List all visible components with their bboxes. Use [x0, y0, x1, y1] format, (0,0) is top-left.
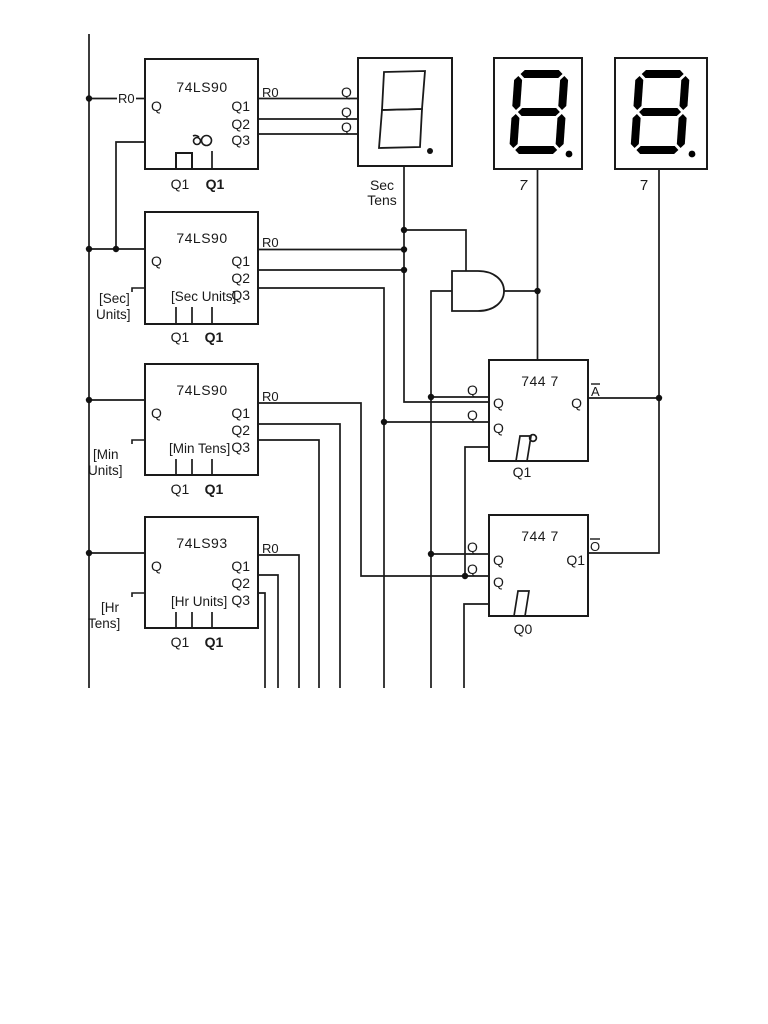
chip U4 labels	[96, 230, 279, 345]
symbol U3 bottom notch	[176, 153, 192, 169]
junction dot bus-chip4	[86, 550, 92, 556]
svg-text:Q: Q	[151, 98, 162, 114]
svg-text:7: 7	[640, 177, 648, 194]
svg-text:Q: Q	[467, 539, 478, 555]
svg-text:Q1: Q1	[231, 253, 250, 269]
svg-text:Q1: Q1	[171, 481, 190, 497]
wire branch to AND gate top input	[404, 230, 466, 271]
decoder U1 labels	[467, 373, 582, 480]
svg-text:Q: Q	[467, 407, 478, 423]
wire chip3 left input	[89, 399, 145, 401]
svg-text:74LS90: 74LS90	[176, 79, 227, 95]
wire node to U2 upper input	[431, 553, 489, 555]
svg-text:R0: R0	[262, 389, 279, 404]
label U2 output O-bar	[590, 539, 600, 554]
wire chip2 R0 output	[258, 249, 404, 251]
wire chip1 R0 input right segment	[136, 98, 145, 100]
symbol U5 left tick	[132, 440, 145, 444]
svg-text:[Sec Units]: [Sec Units]	[171, 289, 236, 304]
svg-text:Q1: Q1	[171, 329, 190, 345]
wire chip2 Q3 output down to bottom	[258, 288, 384, 688]
display DS2 box	[494, 58, 582, 169]
display DS1 decimal point	[427, 148, 433, 154]
wire chip1 bottom-left to chip2 input	[116, 142, 145, 249]
wire U1 bottom-left pin down	[465, 447, 489, 576]
svg-text:Q1: Q1	[171, 634, 190, 650]
svg-text:Q0: Q0	[514, 621, 533, 637]
junction dot U2 lower input	[462, 573, 468, 579]
junction dot chip2 Q2	[401, 267, 407, 273]
svg-text:Q3: Q3	[231, 592, 250, 608]
junction dot bus-chip2	[86, 246, 92, 252]
svg-text:Units]: Units]	[88, 463, 123, 478]
svg-text:Q: Q	[341, 104, 352, 120]
wire chip4 left input	[89, 552, 145, 554]
symbol U4 left tick	[132, 288, 145, 292]
counter 74LS90 U3 box (Sec Tens)	[145, 59, 258, 169]
wire chip2 left input	[89, 248, 145, 250]
svg-text:Q1: Q1	[231, 558, 250, 574]
junction dot AND output	[534, 288, 540, 294]
decoder 7447 U2 box	[489, 515, 588, 616]
wire node to U1 lower input	[384, 421, 489, 423]
junction dot bus-chip3	[86, 397, 92, 403]
svg-text:74LS90: 74LS90	[176, 230, 227, 246]
wire chip1 R0 input left segment	[89, 98, 117, 100]
svg-text:Q2: Q2	[231, 575, 250, 591]
symbol U1 bottom flag	[516, 435, 536, 461]
svg-text:Q3: Q3	[231, 439, 250, 455]
decoder U2 labels	[467, 528, 585, 637]
svg-text:R0: R0	[262, 235, 279, 250]
display DS1 box (Sec Tens)	[358, 58, 452, 166]
svg-text:Q: Q	[493, 574, 504, 590]
svg-text:Q: Q	[467, 382, 478, 398]
symbol U6 bottom ticks	[176, 612, 212, 628]
display DS2 decimal point	[566, 151, 573, 158]
display DS1 outline eight	[379, 71, 425, 148]
svg-text:Q: Q	[151, 405, 162, 421]
svg-text:Q1: Q1	[231, 98, 250, 114]
svg-text:[Sec]: [Sec]	[99, 291, 130, 306]
chip U5 labels	[88, 382, 279, 497]
chip U3 labels	[118, 79, 279, 192]
junction dot U1 output	[656, 395, 662, 401]
junction dot bus-chip1	[86, 95, 92, 101]
svg-text:[Hr: [Hr	[101, 600, 120, 615]
svg-text:Q: Q	[571, 395, 582, 411]
wire display3 down to U2 output	[588, 169, 659, 553]
svg-text:R0: R0	[118, 91, 135, 106]
wire node to U1 upper input	[431, 396, 489, 398]
svg-text:Q1: Q1	[206, 176, 225, 192]
wire chip4 Q2 output down	[258, 575, 278, 688]
wire main left bus	[88, 34, 90, 688]
svg-text:744 7: 744 7	[521, 528, 559, 544]
display DS3 digit 8	[630, 70, 690, 154]
junction dot U1 lower input	[381, 419, 387, 425]
wire chip1 Q2 to display1	[258, 118, 358, 120]
wire U1 output A	[588, 397, 659, 399]
svg-text:Q: Q	[493, 420, 504, 436]
junction dot chip1-drop on chip2 wire	[113, 246, 119, 252]
svg-text:Q: Q	[467, 561, 478, 577]
svg-text:Tens]: Tens]	[88, 616, 120, 631]
svg-text:Sec: Sec	[370, 177, 394, 193]
junction dot U2 upper input	[428, 551, 434, 557]
svg-text:Q1: Q1	[566, 552, 585, 568]
svg-text:Q1: Q1	[205, 329, 224, 345]
svg-text:Tens: Tens	[367, 192, 397, 208]
svg-text:Q1: Q1	[513, 464, 532, 480]
wire chip4 R0 output down	[258, 555, 299, 688]
wire chip3 R0 to U2 lower input	[258, 403, 489, 576]
svg-text:Q: Q	[151, 253, 162, 269]
counter 74LS90 U4 box (Sec Units)	[145, 212, 258, 324]
wire chip1 Q3 to display1	[258, 133, 358, 135]
svg-text:[Min Tens]: [Min Tens]	[169, 441, 230, 456]
svg-text:[Min: [Min	[93, 447, 119, 462]
wire U2 bottom-left pin down	[464, 604, 489, 688]
svg-text:A: A	[591, 384, 600, 399]
svg-text:Q2: Q2	[231, 116, 250, 132]
counter 74LS93 U6 box (Hr)	[145, 517, 258, 628]
svg-text:O: O	[590, 539, 600, 554]
wire display2 down to U1 top	[537, 169, 539, 360]
svg-text:Q: Q	[493, 395, 504, 411]
wire chip4 Q3 output down	[258, 593, 265, 688]
svg-text:Q: Q	[493, 552, 504, 568]
svg-text:7: 7	[519, 177, 528, 194]
wire chip3 Q2 output down	[258, 424, 340, 688]
symbol U6 left tick	[132, 593, 145, 597]
chip U6 labels	[88, 535, 279, 650]
and gate G1	[452, 271, 504, 311]
svg-text:744 7: 744 7	[521, 373, 559, 389]
junction dot U1 upper input	[428, 394, 434, 400]
symbol U4 bottom ticks	[176, 307, 212, 323]
decoder 7447 U1 box	[489, 360, 588, 461]
svg-text:R0: R0	[262, 85, 279, 100]
svg-text:Q1: Q1	[205, 634, 224, 650]
wire display1 down to U1 pin	[404, 166, 489, 402]
wire AND gate output	[504, 290, 538, 292]
wire chip2 Q2 output	[258, 269, 404, 271]
symbol U2 bottom flag	[514, 591, 529, 616]
svg-text:Q: Q	[151, 558, 162, 574]
svg-text:Q1: Q1	[205, 481, 224, 497]
svg-text:Q1: Q1	[231, 405, 250, 421]
display DS3 box	[615, 58, 707, 169]
display DS3 decimal point	[689, 151, 696, 158]
display DS2 digit 8	[509, 70, 569, 154]
svg-text:Q3: Q3	[231, 132, 250, 148]
svg-text:Q: Q	[341, 119, 352, 135]
label U1 output A-bar	[591, 384, 600, 399]
counter 74LS90 U5 box (Min)	[145, 364, 258, 475]
svg-text:Q2: Q2	[231, 270, 250, 286]
symbol U3 squiggle	[193, 135, 212, 145]
symbol U3 bottom tick	[211, 151, 213, 169]
junction dot AND branch	[401, 227, 407, 233]
wire chip3 Q3 output down	[258, 440, 319, 688]
svg-text:R0: R0	[262, 541, 279, 556]
svg-text:Q1: Q1	[171, 176, 190, 192]
svg-text:74LS90: 74LS90	[176, 382, 227, 398]
svg-text:74LS93: 74LS93	[176, 535, 227, 551]
wire AND gate lower input down bus	[431, 291, 452, 688]
wire chip1 Q1 to display1	[258, 98, 358, 100]
svg-text:Q: Q	[341, 84, 352, 100]
junction dot chip2 R0	[401, 246, 407, 252]
symbol U5 bottom ticks	[176, 459, 212, 475]
svg-text:[Hr Units]: [Hr Units]	[171, 594, 227, 609]
svg-text:Q2: Q2	[231, 422, 250, 438]
svg-text:Units]: Units]	[96, 307, 131, 322]
